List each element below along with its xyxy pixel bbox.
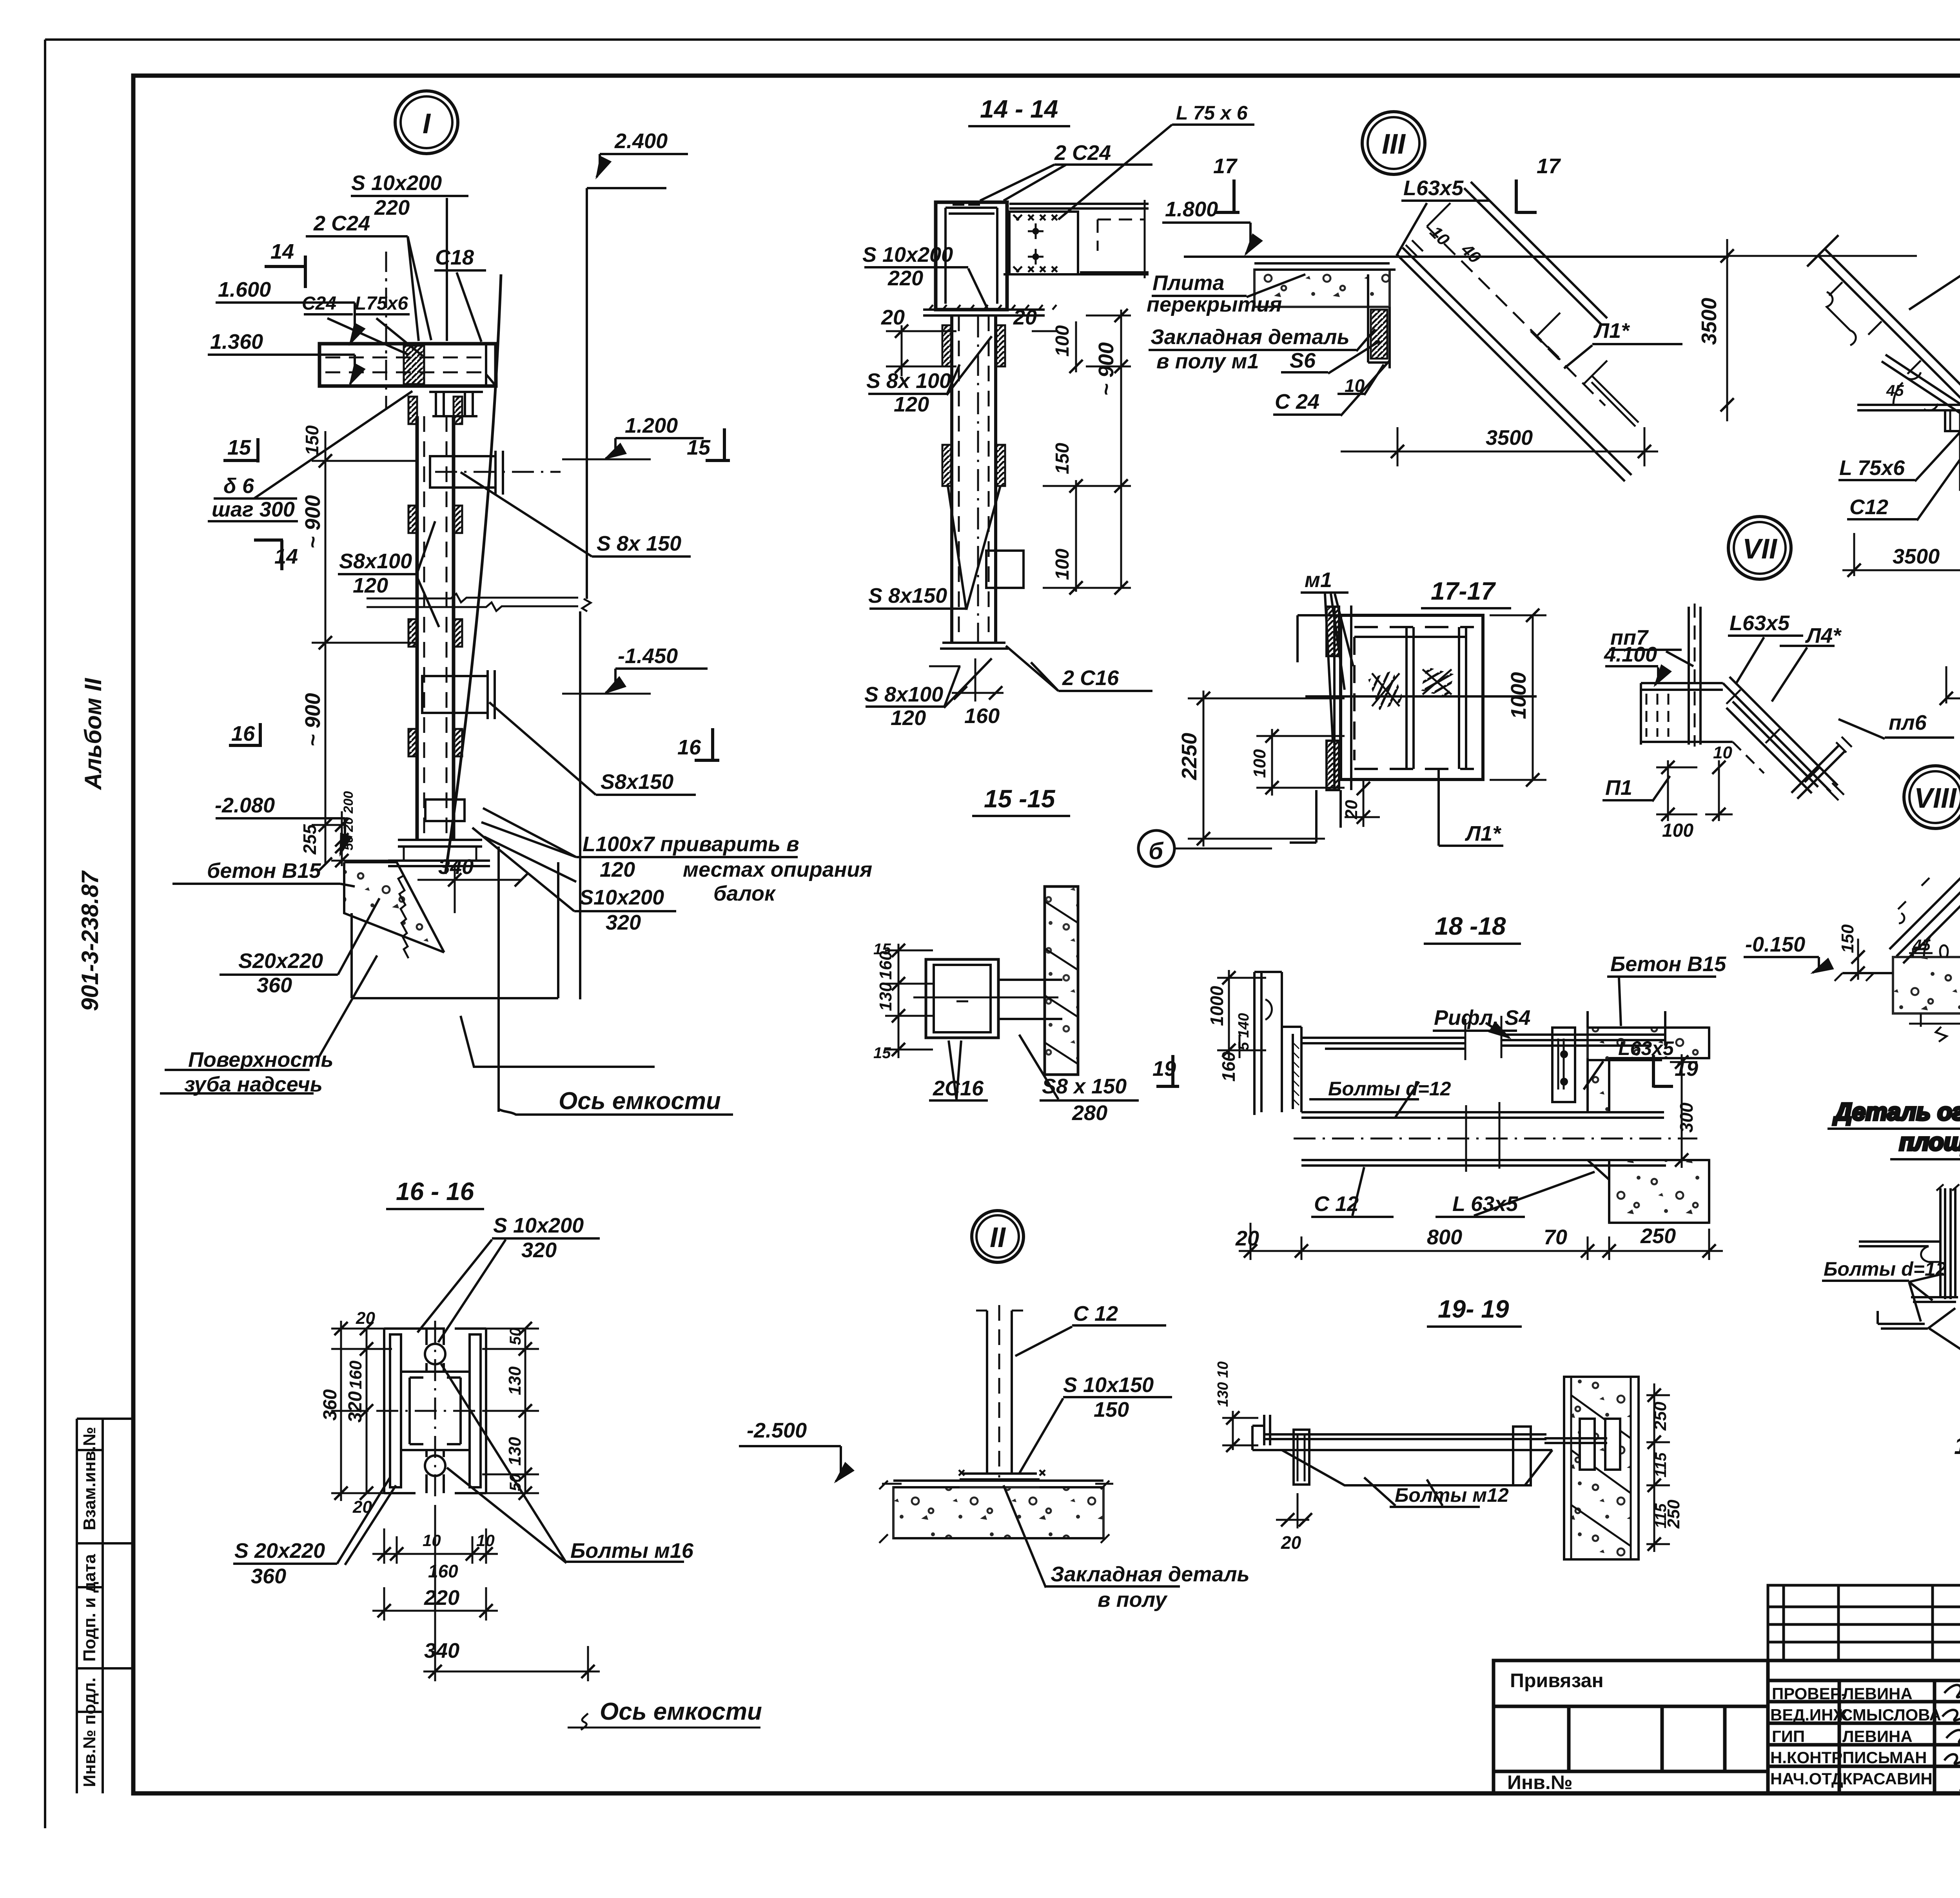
svg-text:м1: м1 <box>1305 568 1332 592</box>
svg-text:Деталь ограждения: Деталь ограждения <box>1833 1099 1960 1126</box>
svg-text:280: 280 <box>1072 1101 1107 1125</box>
svg-text:~ 900: ~ 900 <box>301 495 325 549</box>
svg-text:17-17: 17-17 <box>1431 577 1496 605</box>
svg-text:320: 320 <box>345 1391 366 1423</box>
svg-text:255: 255 <box>299 824 320 855</box>
svg-text:100: 100 <box>1662 820 1693 841</box>
svg-text:S 8x100: S 8x100 <box>864 683 943 706</box>
svg-text:C 24: C 24 <box>1275 390 1319 413</box>
svg-text:160: 160 <box>1218 1051 1239 1082</box>
svg-text:Н.КОНТР: Н.КОНТР <box>1770 1748 1842 1767</box>
svg-text:L63x5: L63x5 <box>1730 611 1790 635</box>
svg-text:2 C24: 2 C24 <box>313 212 370 235</box>
svg-text:-2.500: -2.500 <box>747 1419 807 1442</box>
svg-text:10: 10 <box>476 1531 495 1550</box>
svg-text:20: 20 <box>1342 800 1361 819</box>
svg-text:перекрытия: перекрытия <box>1147 293 1282 316</box>
svg-text:C18: C18 <box>435 246 474 269</box>
svg-text:S 10x150: S 10x150 <box>1063 1373 1154 1397</box>
svg-text:130: 130 <box>505 1366 524 1395</box>
svg-text:320: 320 <box>606 911 641 934</box>
svg-text:17: 17 <box>1213 154 1238 178</box>
svg-text:НАЧ.ОТД: НАЧ.ОТД <box>1770 1769 1843 1788</box>
svg-text:150: 150 <box>1094 1398 1129 1421</box>
svg-text:S8x150: S8x150 <box>601 770 673 794</box>
svg-text:2 C16: 2 C16 <box>1062 666 1119 690</box>
svg-text:Альбом II: Альбом II <box>80 678 106 790</box>
svg-text:шаг 300: шаг 300 <box>212 498 295 521</box>
svg-text:~ 900: ~ 900 <box>1094 342 1118 396</box>
svg-text:115: 115 <box>1652 1452 1670 1477</box>
svg-text:130: 130 <box>505 1437 524 1466</box>
svg-text:220: 220 <box>374 196 410 219</box>
svg-text:20: 20 <box>881 306 905 329</box>
svg-text:901-3-238.87: 901-3-238.87 <box>77 870 103 1011</box>
svg-text:Л4*: Л4* <box>1805 624 1842 647</box>
svg-text:Ось емкости: Ось емкости <box>600 1698 762 1725</box>
svg-text:16: 16 <box>231 722 255 745</box>
svg-text:Взам.инв.№: Взам.инв.№ <box>80 1427 99 1530</box>
svg-text:I: I <box>423 108 431 140</box>
svg-text:15: 15 <box>873 941 891 958</box>
svg-text:220: 220 <box>887 266 923 290</box>
svg-text:100: 100 <box>1052 325 1073 357</box>
svg-text:19: 19 <box>1675 1057 1698 1080</box>
svg-text:360: 360 <box>251 1564 286 1588</box>
svg-text:S 8x150: S 8x150 <box>868 584 947 607</box>
svg-text:Поверхность: Поверхность <box>188 1048 334 1071</box>
svg-text:2C16: 2C16 <box>933 1077 984 1100</box>
svg-text:S20x220: S20x220 <box>238 949 323 973</box>
svg-text:Закладная деталь: Закладная деталь <box>1051 1563 1250 1586</box>
svg-text:П1: П1 <box>1605 776 1632 799</box>
svg-text:б: б <box>1149 838 1164 864</box>
svg-text:ПИСЬМАН: ПИСЬМАН <box>1842 1748 1927 1767</box>
svg-text:Болты м12: Болты м12 <box>1395 1484 1509 1506</box>
svg-text:250: 250 <box>1664 1499 1683 1529</box>
svg-text:площадок: площадок <box>1899 1129 1960 1156</box>
svg-text:Бетон В15: Бетон В15 <box>1610 952 1726 976</box>
svg-text:пл6: пл6 <box>1889 711 1927 734</box>
svg-text:S 10x200: S 10x200 <box>493 1214 584 1237</box>
svg-text:100: 100 <box>1250 749 1269 778</box>
svg-text:14: 14 <box>274 545 298 568</box>
svg-text:C12: C12 <box>1849 495 1888 519</box>
svg-text:45: 45 <box>1886 382 1904 399</box>
svg-text:160: 160 <box>346 1360 365 1389</box>
svg-text:4.100: 4.100 <box>1604 643 1657 666</box>
svg-text:150: 150 <box>302 425 322 455</box>
svg-text:14 - 14: 14 - 14 <box>980 95 1058 123</box>
svg-text:L75x6: L75x6 <box>355 293 408 314</box>
svg-text:250: 250 <box>1651 1401 1670 1431</box>
svg-text:S8x100: S8x100 <box>339 549 412 573</box>
svg-text:L 75 x 6: L 75 x 6 <box>1176 102 1248 124</box>
svg-text:S 20x220: S 20x220 <box>234 1539 325 1563</box>
svg-text:15 -15: 15 -15 <box>984 785 1056 813</box>
svg-text:15: 15 <box>687 436 711 459</box>
svg-text:15: 15 <box>227 436 251 459</box>
svg-text:Ось емкости: Ось емкости <box>559 1088 721 1115</box>
svg-text:в полу м1: в полу м1 <box>1156 350 1259 373</box>
svg-text:250: 250 <box>1640 1224 1676 1248</box>
svg-text:45: 45 <box>1913 937 1931 954</box>
svg-text:L 63x5: L 63x5 <box>1452 1192 1518 1216</box>
svg-text:1.360: 1.360 <box>210 330 263 353</box>
svg-text:16: 16 <box>677 736 701 759</box>
svg-text:1.600: 1.600 <box>218 278 271 301</box>
svg-text:20: 20 <box>1013 306 1037 329</box>
svg-text:1.200: 1.200 <box>625 414 678 437</box>
svg-text:Рифл. S4: Рифл. S4 <box>1434 1006 1530 1030</box>
svg-text:1000: 1000 <box>1507 672 1530 719</box>
svg-text:120: 120 <box>353 574 388 597</box>
svg-text:Подп. и дата: Подп. и дата <box>80 1554 99 1662</box>
svg-text:130: 130 <box>876 982 895 1011</box>
svg-text:150: 150 <box>1052 443 1073 474</box>
svg-text:S 8x 150: S 8x 150 <box>597 532 681 555</box>
svg-text:18 -18: 18 -18 <box>1435 912 1506 940</box>
svg-text:340: 340 <box>424 1639 459 1662</box>
svg-text:2250: 2250 <box>1178 733 1201 780</box>
svg-text:VIII: VIII <box>1914 783 1957 814</box>
svg-text:бетон В15: бетон В15 <box>207 859 321 883</box>
svg-text:III: III <box>1382 129 1406 160</box>
svg-text:в полу: в полу <box>1098 1588 1168 1612</box>
svg-text:Инв.№ подл.: Инв.№ подл. <box>80 1677 99 1787</box>
svg-text:300: 300 <box>1676 1102 1697 1133</box>
svg-text:C24: C24 <box>302 293 336 314</box>
svg-text:19: 19 <box>1152 1057 1176 1080</box>
svg-text:зуба надсечь: зуба надсечь <box>184 1073 323 1096</box>
svg-text:S 10x200: S 10x200 <box>862 243 953 266</box>
svg-text:местах опирания: местах опирания <box>683 858 872 881</box>
svg-text:160: 160 <box>964 704 1000 728</box>
svg-text:130 10: 130 10 <box>1215 1361 1231 1407</box>
svg-text:20: 20 <box>352 1497 372 1517</box>
svg-text:S8 x 150: S8 x 150 <box>1042 1075 1127 1098</box>
svg-text:10: 10 <box>1713 743 1732 762</box>
svg-text:2 C24: 2 C24 <box>1054 141 1111 165</box>
svg-text:Л1*: Л1* <box>1465 822 1502 845</box>
svg-text:1.800: 1.800 <box>1165 198 1218 221</box>
svg-text:50 20 200: 50 20 200 <box>341 791 356 850</box>
svg-text:150: 150 <box>1838 924 1857 953</box>
svg-text:3500: 3500 <box>1697 298 1721 345</box>
svg-text:160: 160 <box>428 1561 458 1581</box>
svg-text:14: 14 <box>270 240 294 263</box>
svg-text:II: II <box>990 1222 1006 1253</box>
svg-text:Инв.№: Инв.№ <box>1507 1771 1573 1793</box>
svg-text:S 8x 100: S 8x 100 <box>866 369 951 393</box>
svg-text:C 12: C 12 <box>1314 1192 1359 1216</box>
svg-text:360: 360 <box>320 1389 341 1421</box>
svg-text:1. Узлы замаркированы на: 1. Узлы замаркированы на листе КМ 6. <box>1954 1432 1960 1459</box>
svg-text:20: 20 <box>356 1309 375 1328</box>
svg-text:120: 120 <box>600 858 635 881</box>
svg-text:Болты d=12: Болты d=12 <box>1328 1078 1451 1100</box>
svg-text:320: 320 <box>521 1238 557 1262</box>
svg-text:C 12: C 12 <box>1073 1302 1118 1325</box>
svg-text:Закладная деталь: Закладная деталь <box>1151 325 1350 349</box>
svg-text:балок: балок <box>713 882 776 905</box>
svg-text:S10x200: S10x200 <box>579 886 664 909</box>
svg-text:~ 900: ~ 900 <box>301 693 325 747</box>
svg-text:17: 17 <box>1537 154 1561 178</box>
svg-text:VII: VII <box>1742 533 1778 565</box>
svg-text:Плита: Плита <box>1152 271 1224 295</box>
svg-text:10: 10 <box>423 1531 441 1550</box>
svg-text:L100x7 приварить в: L100x7 приварить в <box>583 832 799 856</box>
svg-text:20: 20 <box>1235 1227 1259 1250</box>
svg-text:2.400: 2.400 <box>614 129 668 153</box>
svg-text:S6: S6 <box>1290 349 1316 372</box>
svg-text:Болты d=12: Болты d=12 <box>1824 1258 1947 1280</box>
svg-text:ПРОВЕР-: ПРОВЕР- <box>1772 1684 1847 1703</box>
svg-text:3500: 3500 <box>1486 426 1533 450</box>
svg-text:ЛЕВИНА: ЛЕВИНА <box>1842 1727 1913 1746</box>
svg-text:S 10x200: S 10x200 <box>351 171 442 195</box>
svg-text:50: 50 <box>507 1328 524 1345</box>
svg-text:Болты м16: Болты м16 <box>570 1539 694 1563</box>
svg-text:L63x5: L63x5 <box>1618 1037 1674 1059</box>
svg-text:L63x5: L63x5 <box>1403 176 1464 200</box>
svg-text:16 - 16: 16 - 16 <box>396 1177 474 1206</box>
svg-text:120: 120 <box>891 706 926 730</box>
svg-text:Л1*: Л1* <box>1593 319 1630 343</box>
svg-text:-2.080: -2.080 <box>215 794 275 817</box>
svg-text:3500: 3500 <box>1893 545 1940 568</box>
svg-text:120: 120 <box>894 393 929 416</box>
svg-text:20: 20 <box>1281 1532 1301 1553</box>
svg-text:СМЫСЛОВА: СМЫСЛОВА <box>1841 1706 1941 1724</box>
svg-text:КРАСАВИН: КРАСАВИН <box>1842 1769 1933 1788</box>
svg-text:19- 19: 19- 19 <box>1438 1295 1509 1323</box>
svg-text:Привязан: Привязан <box>1510 1670 1604 1691</box>
svg-text:1000: 1000 <box>1207 986 1227 1026</box>
svg-text:15: 15 <box>873 1044 891 1062</box>
svg-text:-0.150: -0.150 <box>1745 933 1805 956</box>
svg-text:-1.450: -1.450 <box>618 644 678 668</box>
svg-text:10: 10 <box>1345 375 1365 396</box>
svg-text:δ 6: δ 6 <box>223 474 254 498</box>
svg-text:ЛЕВИНА: ЛЕВИНА <box>1842 1684 1913 1703</box>
svg-text:5 140: 5 140 <box>1236 1013 1252 1050</box>
svg-text:100: 100 <box>1052 549 1073 580</box>
svg-text:360: 360 <box>257 973 292 997</box>
svg-text:L 75x6: L 75x6 <box>1839 456 1905 480</box>
svg-text:340: 340 <box>438 855 474 879</box>
svg-text:800: 800 <box>1427 1225 1462 1249</box>
svg-text:220: 220 <box>424 1586 459 1610</box>
svg-text:ВЕД.ИНЖ: ВЕД.ИНЖ <box>1770 1706 1848 1724</box>
svg-text:70: 70 <box>1544 1225 1567 1249</box>
svg-text:ГИП: ГИП <box>1772 1727 1805 1746</box>
svg-text:50: 50 <box>507 1474 524 1492</box>
